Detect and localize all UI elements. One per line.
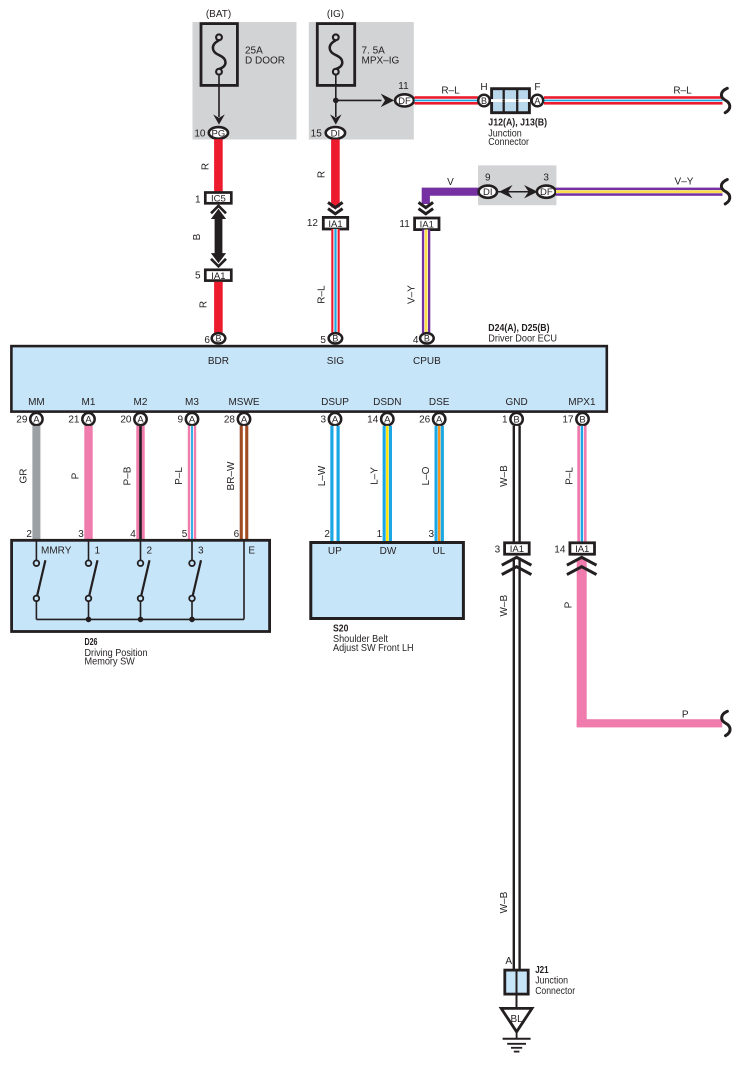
svg-text:IA1: IA1 xyxy=(328,219,342,230)
svg-text:A: A xyxy=(241,415,248,426)
svg-text:GR: GR xyxy=(18,469,29,484)
wire break symbol right (P) xyxy=(722,711,730,735)
wire fuse to pin 10 xyxy=(218,75,220,117)
arrowhead into pin 10 xyxy=(213,114,225,124)
svg-text:L–O: L–O xyxy=(421,466,432,485)
wire L-Y (blue/yellow) DSDN to S20 pin 1 xyxy=(383,426,392,542)
wire P (pink) M1 to D26 pin 3 xyxy=(84,426,92,541)
svg-text:MPX–IG: MPX–IG xyxy=(362,55,400,66)
svg-text:A: A xyxy=(33,415,40,426)
wire P-L (pink/blue) M3 to D26 pin 5 xyxy=(188,426,196,541)
svg-text:21: 21 xyxy=(68,415,80,426)
svg-text:B: B xyxy=(424,334,430,344)
svg-text:M2: M2 xyxy=(134,397,148,408)
fuse F1 25A D DOOR outline xyxy=(201,24,237,86)
svg-text:B: B xyxy=(513,415,519,426)
fuse F1 element symbol xyxy=(216,34,222,40)
svg-text:DSDN: DSDN xyxy=(373,397,401,408)
svg-text:A: A xyxy=(85,415,92,426)
svg-text:B: B xyxy=(215,334,221,344)
svg-text:B: B xyxy=(579,415,585,426)
switch S20 box xyxy=(311,543,464,619)
arrow chevrons out of IA1 pin 3 xyxy=(502,557,532,574)
svg-text:DF: DF xyxy=(540,187,553,198)
svg-text:3: 3 xyxy=(495,544,501,555)
wire R-L horizontal junction connector to right edge xyxy=(544,96,723,104)
wire GR (gray) MM to MMRY xyxy=(32,426,40,541)
wire V (violet) elbow to DI xyxy=(426,192,479,204)
wire P (pink) IA1 to right edge xyxy=(577,559,587,728)
wire DI to DF with double arrows xyxy=(498,191,537,193)
svg-text:1: 1 xyxy=(377,529,383,540)
svg-text:DI: DI xyxy=(331,128,341,139)
svg-text:S20: S20 xyxy=(333,623,349,635)
svg-text:F: F xyxy=(534,82,540,93)
wire break symbol right (V-Y) xyxy=(721,180,729,204)
svg-text:1: 1 xyxy=(195,194,201,205)
svg-text:IA1: IA1 xyxy=(510,544,524,555)
svg-text:3: 3 xyxy=(543,172,549,183)
wire L-W (blue/white) DSUP to S20 pin 2 xyxy=(330,426,339,542)
junction block shading (DI/DF) xyxy=(478,165,556,205)
wire B (black) IC5 to IA1 with arrowheads xyxy=(215,216,223,256)
svg-text:P–B: P–B xyxy=(123,466,134,485)
wire R-L horizontal DF to junction connector xyxy=(415,96,478,104)
svg-text:A: A xyxy=(332,415,339,426)
svg-text:11: 11 xyxy=(398,81,409,92)
junction node 1 xyxy=(86,617,92,623)
svg-text:28: 28 xyxy=(224,415,236,426)
svg-text:R: R xyxy=(317,171,328,178)
svg-text:5: 5 xyxy=(195,271,201,282)
svg-text:DW: DW xyxy=(380,546,397,557)
svg-text:J21: J21 xyxy=(535,964,549,976)
svg-text:DI: DI xyxy=(483,187,493,198)
svg-text:R–L: R–L xyxy=(317,285,328,304)
junction node 3 xyxy=(189,617,195,623)
svg-text:3: 3 xyxy=(198,546,204,557)
svg-text:29: 29 xyxy=(16,415,28,426)
svg-text:A: A xyxy=(189,415,196,426)
switch 3 xyxy=(189,542,201,620)
fuse block shading (IG) xyxy=(309,22,414,140)
svg-text:M1: M1 xyxy=(82,397,96,408)
svg-text:UP: UP xyxy=(328,546,342,557)
svg-text:2: 2 xyxy=(26,529,32,540)
svg-text:5: 5 xyxy=(320,335,326,346)
wire R (red) PG to IC5 xyxy=(214,139,223,192)
svg-text:14: 14 xyxy=(367,415,379,426)
wire fuse to pin 15 xyxy=(335,75,337,117)
svg-text:14: 14 xyxy=(554,544,566,555)
svg-text:15: 15 xyxy=(311,129,323,140)
svg-text:1: 1 xyxy=(95,546,101,557)
svg-text:(BAT): (BAT) xyxy=(206,9,231,20)
arrowhead into pin 15 xyxy=(330,114,342,124)
svg-text:Connector: Connector xyxy=(535,986,575,997)
wire P-L (pink/blue) MPX1 to IA1 pin 14 xyxy=(577,426,586,543)
switch MMRY xyxy=(34,542,46,620)
svg-text:UL: UL xyxy=(433,546,446,557)
svg-text:SIG: SIG xyxy=(327,356,344,367)
svg-text:MMRY: MMRY xyxy=(41,546,72,557)
wire V-Y horizontal DF to right edge xyxy=(556,188,723,196)
svg-text:D24(A), D25(B): D24(A), D25(B) xyxy=(488,322,549,334)
wire break symbol right (R-L) xyxy=(721,88,729,112)
fuse F2 7.5A MPX-IG outline xyxy=(317,24,354,86)
svg-text:R: R xyxy=(201,163,212,170)
svg-text:MM: MM xyxy=(28,397,45,408)
svg-text:R–L: R–L xyxy=(673,85,692,96)
arrowhead into pin 11 xyxy=(381,94,395,108)
svg-text:Driver Door ECU: Driver Door ECU xyxy=(488,334,557,345)
svg-text:DF: DF xyxy=(398,96,411,107)
arrow chevrons into IA1 pin 12 xyxy=(328,202,343,213)
svg-text:10: 10 xyxy=(194,129,206,140)
svg-text:1: 1 xyxy=(502,415,508,426)
svg-text:Connector: Connector xyxy=(488,137,529,148)
svg-text:A: A xyxy=(436,415,443,426)
svg-text:IA1: IA1 xyxy=(575,544,589,555)
svg-text:B: B xyxy=(332,334,338,344)
svg-text:Junction: Junction xyxy=(535,975,568,986)
svg-text:20: 20 xyxy=(120,415,132,426)
svg-text:BR–W: BR–W xyxy=(226,461,237,490)
svg-text:BDR: BDR xyxy=(208,356,229,367)
svg-text:5: 5 xyxy=(182,529,188,540)
wire branch to pin 11 DF xyxy=(336,99,382,101)
svg-text:B: B xyxy=(192,233,203,240)
svg-text:D DOOR: D DOOR xyxy=(245,55,285,66)
wire through J21 to ground xyxy=(516,969,518,1008)
svg-text:P: P xyxy=(682,710,689,721)
svg-text:GND: GND xyxy=(505,397,527,408)
svg-text:6: 6 xyxy=(234,529,240,540)
svg-text:26: 26 xyxy=(419,415,431,426)
svg-text:H: H xyxy=(480,82,487,93)
svg-text:11: 11 xyxy=(399,219,410,230)
wire E pin line xyxy=(243,542,245,620)
switch 2 xyxy=(138,542,150,620)
svg-text:B: B xyxy=(481,96,487,106)
svg-text:V–Y: V–Y xyxy=(675,177,694,188)
svg-text:6: 6 xyxy=(204,335,210,346)
svg-text:DSUP: DSUP xyxy=(321,397,349,408)
ground triangle BL xyxy=(501,1008,532,1031)
wire BR-W (brown/white) MSWE to D26 pin 6 xyxy=(240,426,249,541)
wire R (red) DI to IA1 xyxy=(331,139,340,207)
svg-text:9: 9 xyxy=(485,172,491,183)
wire bus inside D26 xyxy=(36,618,244,620)
svg-text:A: A xyxy=(137,415,144,426)
svg-text:PG: PG xyxy=(212,128,226,139)
svg-text:Adjust SW Front LH: Adjust SW Front LH xyxy=(333,643,414,654)
svg-text:P–L: P–L xyxy=(174,467,185,485)
svg-text:W–B: W–B xyxy=(499,891,510,913)
svg-text:P: P xyxy=(71,472,82,479)
arrow chevrons out of IA1 pin 14 xyxy=(567,557,597,574)
wire R (red) IA1 to ECU pin 6 xyxy=(214,282,223,333)
svg-text:12: 12 xyxy=(307,218,319,229)
svg-text:A: A xyxy=(534,96,540,106)
svg-text:9: 9 xyxy=(177,415,183,426)
svg-text:P–L: P–L xyxy=(565,467,576,485)
svg-text:V: V xyxy=(447,177,454,188)
fuse block shading (BAT) xyxy=(193,22,297,140)
svg-text:P: P xyxy=(564,601,575,608)
junction connector J12/J13 grid xyxy=(491,88,530,114)
fuse F2 element symbol xyxy=(333,34,339,40)
junction node 2 xyxy=(138,617,144,623)
svg-text:3: 3 xyxy=(429,529,435,540)
wire W-B (white/black) IA1 to J21 xyxy=(513,558,521,970)
svg-text:4: 4 xyxy=(130,529,136,540)
wire V-Y IA1 to ECU pin 4 xyxy=(422,230,430,333)
svg-text:(IG): (IG) xyxy=(327,9,344,20)
svg-text:J12(A), J13(B): J12(A), J13(B) xyxy=(488,116,547,128)
svg-text:L–W: L–W xyxy=(317,465,328,486)
svg-text:R: R xyxy=(199,301,210,308)
svg-text:V–Y: V–Y xyxy=(407,285,418,304)
ECU D24/D25 box xyxy=(11,346,606,412)
svg-text:CPUB: CPUB xyxy=(413,356,441,367)
svg-text:Memory SW: Memory SW xyxy=(85,657,136,668)
svg-text:M3: M3 xyxy=(185,397,199,408)
switch D26 box xyxy=(12,540,270,631)
switch 1 xyxy=(86,542,98,620)
svg-text:MPX1: MPX1 xyxy=(568,397,596,408)
svg-text:3: 3 xyxy=(320,415,326,426)
svg-text:W–B: W–B xyxy=(499,465,510,487)
ground symbol xyxy=(503,1032,531,1052)
wire R-L (red/blue) IA1 to ECU pin 5 xyxy=(331,229,339,333)
svg-text:3: 3 xyxy=(78,529,84,540)
svg-text:A: A xyxy=(505,956,512,967)
svg-text:L–Y: L–Y xyxy=(369,467,380,485)
svg-text:2: 2 xyxy=(147,546,153,557)
svg-text:MSWE: MSWE xyxy=(228,397,259,408)
arrow chevrons into IA1 pin 11 xyxy=(419,202,434,213)
svg-text:IA1: IA1 xyxy=(211,271,225,282)
junction connector J21 box xyxy=(505,970,528,994)
svg-text:A: A xyxy=(384,415,391,426)
wire P-B (pink/black) M2 to D26 pin 4 xyxy=(136,426,144,541)
svg-text:R–L: R–L xyxy=(441,85,460,96)
svg-text:IC5: IC5 xyxy=(211,194,226,205)
svg-text:D26: D26 xyxy=(85,636,98,648)
svg-text:4: 4 xyxy=(413,335,419,346)
wire W-B (white/black) GND to IA1 pin 3 xyxy=(513,426,521,543)
svg-text:IA1: IA1 xyxy=(420,220,434,231)
junction node xyxy=(333,98,339,104)
svg-text:2: 2 xyxy=(324,529,330,540)
svg-text:17: 17 xyxy=(562,415,574,426)
svg-text:DSE: DSE xyxy=(429,397,450,408)
svg-text:BL: BL xyxy=(510,1014,523,1025)
svg-text:E: E xyxy=(248,546,255,557)
wire L-O (blue/orange) DSE to S20 pin 3 xyxy=(435,426,444,542)
svg-text:W–B: W–B xyxy=(499,595,510,617)
